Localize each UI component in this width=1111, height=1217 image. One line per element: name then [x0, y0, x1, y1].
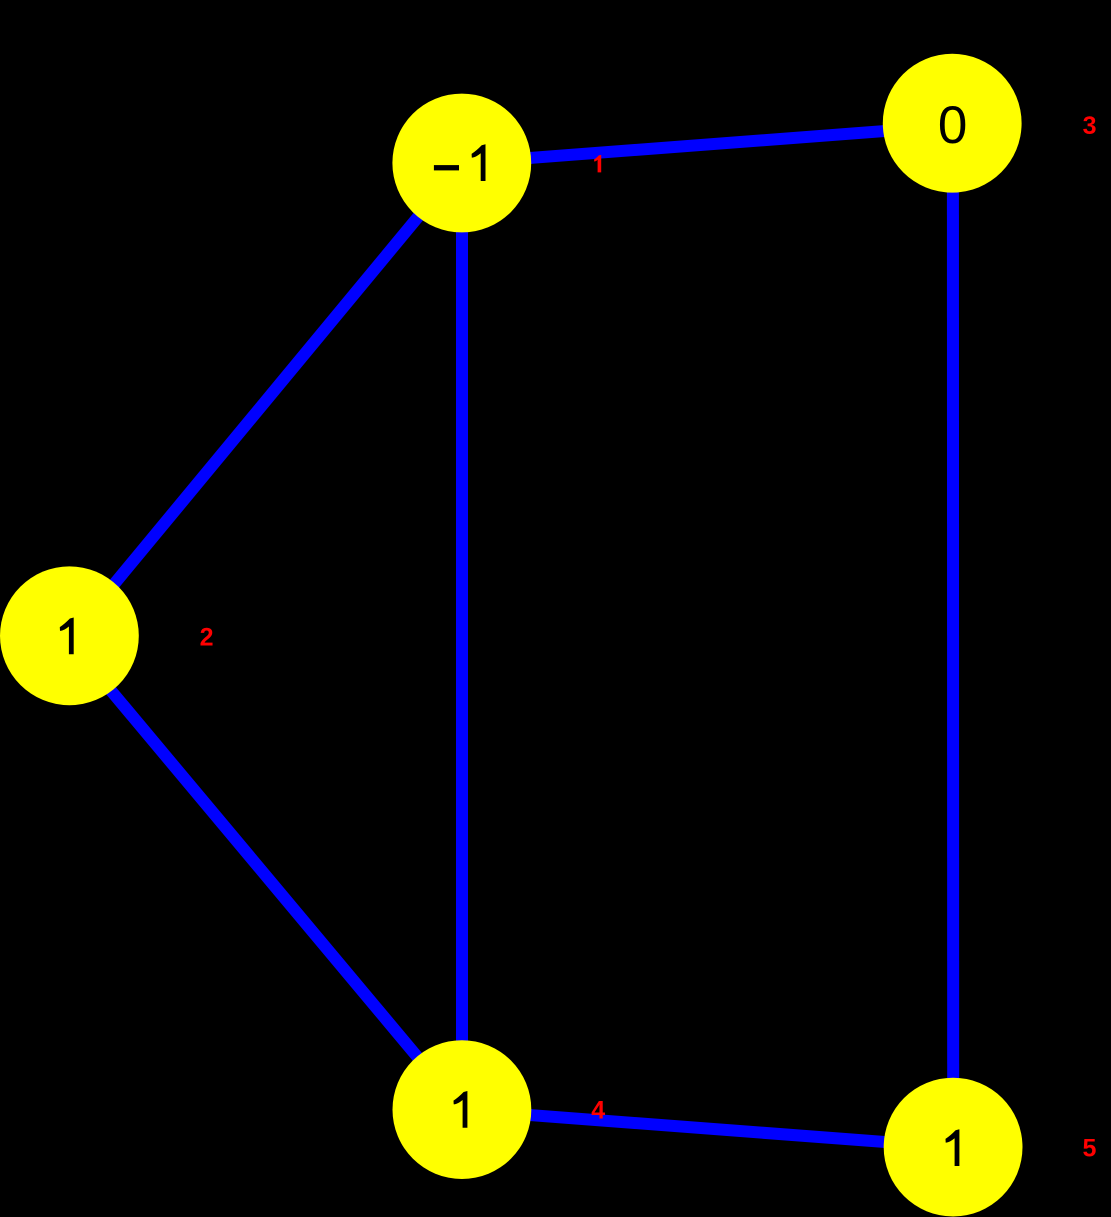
node B value label 1	[60, 618, 74, 655]
node A value label -1	[434, 144, 486, 181]
svg-text:5: 5	[1083, 1135, 1097, 1163]
node D value label 1	[454, 1091, 468, 1128]
wire edge D-E	[462, 1110, 953, 1147]
node B circle	[0, 566, 139, 705]
wire edge A-B	[71, 163, 462, 636]
node A circle	[392, 94, 531, 233]
wire edge A-D	[456, 163, 468, 1110]
wire edge C-E	[947, 123, 959, 1147]
wire edge A-C	[462, 126, 953, 163]
svg-text:0: 0	[938, 96, 967, 155]
node E circle	[884, 1078, 1023, 1217]
svg-text:2: 2	[200, 623, 214, 651]
wire edge B-D	[65, 636, 461, 1110]
svg-text:4: 4	[591, 1096, 605, 1124]
node E value label 1	[946, 1129, 960, 1166]
node C circle	[883, 54, 1022, 193]
node A index label 1	[594, 155, 601, 173]
node D circle	[393, 1040, 532, 1179]
svg-text:3: 3	[1083, 112, 1097, 140]
